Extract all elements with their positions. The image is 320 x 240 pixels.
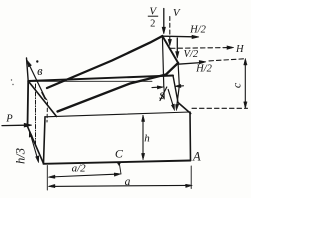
svg-text:c: c (229, 82, 243, 88)
dot near b label (36, 60, 38, 62)
top-right receding edge (178, 103, 191, 114)
left stub above back corner (27, 58, 29, 81)
svg-text:s: s (159, 88, 165, 103)
C extension to a/2 (120, 165, 122, 175)
rod 2 (lower guy rod) (58, 63, 179, 112)
H/2 #1 arrow (163, 35, 194, 38)
svg-text:H: H (235, 44, 245, 55)
small down arrow onto top face (176, 104, 179, 110)
svg-text:V: V (149, 6, 157, 18)
V/2 #1 arrow (163, 9, 165, 29)
specks (11, 79, 12, 80)
svg-text:P: P (5, 114, 13, 125)
right extension below block (190, 166, 192, 189)
svg-text:a: a (125, 176, 131, 188)
hidden edge dashed left inner (35, 84, 37, 145)
c dimension line (244, 60, 246, 107)
svg-text:H/2: H/2 (189, 25, 207, 36)
dashed line from block corner to c bottom (192, 107, 248, 109)
front-top edge (45, 112, 190, 117)
front-left edge (44, 117, 46, 164)
top-left receding edge (28, 81, 56, 117)
H dashed resultant (171, 47, 228, 50)
rod 1 (upper guy rod) (47, 36, 162, 88)
svg-text:H/2: H/2 (195, 64, 213, 75)
stub 2 under apex2 (177, 63, 179, 104)
hidden edge dashed near front-left (46, 102, 49, 122)
V dashed resultant (169, 17, 171, 41)
left extension below block (46, 166, 48, 191)
svg-text:h/3: h/3 (14, 148, 28, 164)
back-left vertical edge (27, 81, 30, 127)
thin ground line from back corner (28, 80, 152, 82)
a/2 dimension line (50, 174, 116, 177)
svg-text:V: V (173, 7, 181, 19)
svg-text:C: C (115, 147, 124, 161)
bottom-left receding edge (28, 127, 44, 164)
C point tick (117, 162, 121, 166)
back-top edge of block (28, 76, 173, 82)
V/2 fraction label (148, 6, 158, 30)
H/2 #2 arrow (178, 63, 200, 65)
b-width arrow (29, 64, 45, 97)
rod bend segment apex1 to apex2 (162, 36, 178, 63)
svg-text:a/2: a/2 (72, 163, 87, 175)
steep segment near s (160, 87, 167, 101)
back-right edge (173, 76, 178, 103)
bottom edge (44, 161, 191, 164)
svg-text:A: A (192, 150, 201, 164)
svg-text:в: в (37, 64, 43, 78)
P arrow (2, 124, 26, 126)
s dimension arrows (152, 86, 159, 88)
a dimension line (50, 185, 188, 186)
front-right edge (189, 112, 192, 161)
svg-text:V/2: V/2 (184, 49, 199, 60)
dashes continuing H/2 to c line (209, 59, 246, 61)
V/2 #2 arrow (176, 38, 178, 53)
h dimension arrow (142, 116, 144, 156)
svg-text:2: 2 (150, 19, 155, 30)
stub 1 under apex1 (162, 36, 163, 87)
svg-text:h: h (144, 133, 150, 145)
h/3 dimension (30, 132, 38, 161)
